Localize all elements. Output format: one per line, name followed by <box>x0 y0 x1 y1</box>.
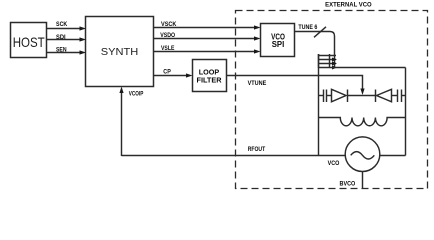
external vco dashed boundary <box>236 2 428 189</box>
svg-text:HOST: HOST <box>13 35 45 50</box>
wire SEN host to synth <box>47 52 82 54</box>
svg-text:VCO: VCO <box>328 161 340 167</box>
svg-text:VTUNE: VTUNE <box>248 81 267 87</box>
svg-text:VSDO: VSDO <box>160 33 175 39</box>
svg-text:RFOUT: RFOUT <box>248 147 266 153</box>
svg-text:VSLE: VSLE <box>161 46 174 52</box>
inductor L1 <box>319 118 406 126</box>
svg-text:VSCK: VSCK <box>161 22 177 28</box>
capacitor C-left <box>323 90 325 103</box>
tank top rail <box>319 67 406 69</box>
wire circle right to tank <box>380 155 406 157</box>
capacitor C-right <box>397 90 399 103</box>
loop filter box <box>193 60 227 92</box>
svg-text:EXTERNAL VCO: EXTERNAL VCO <box>325 2 372 9</box>
varactor diode D-right <box>375 90 377 103</box>
wire center node <box>348 95 376 97</box>
varactor branch: wire <box>319 95 324 97</box>
svg-text:LOOP: LOOP <box>199 69 220 76</box>
bus slash 6 <box>314 27 326 38</box>
wire BVCO stub <box>362 172 364 190</box>
svg-text:CP: CP <box>163 70 171 76</box>
svg-text:SPI: SPI <box>272 40 285 49</box>
svg-text:TUNE 6: TUNE 6 <box>298 25 318 31</box>
wire CP synth to loop filter <box>154 75 189 77</box>
wire SCK host to synth <box>47 28 82 30</box>
vco oscillator circle <box>328 137 380 172</box>
wire <box>392 95 398 97</box>
wire VSDO synth to vco spi <box>154 38 257 40</box>
host box U-HOST <box>11 23 47 58</box>
vco spi box <box>261 24 295 57</box>
svg-text:SEN: SEN <box>56 47 67 53</box>
svg-text:SDI: SDI <box>56 35 66 41</box>
svg-text:BVCO: BVCO <box>340 182 356 188</box>
wire TUNE 6 bus vco spi to cap bank <box>295 32 335 68</box>
switched capacitor bank <box>319 54 338 70</box>
wire <box>327 95 332 97</box>
wire SDI host to synth <box>47 39 82 41</box>
svg-text:SCK: SCK <box>56 22 68 28</box>
tank left vertical <box>318 54 320 156</box>
varactor diode D-left <box>332 89 347 102</box>
synth box U-SYNTH <box>86 17 154 87</box>
svg-text:SYNTH: SYNTH <box>101 46 139 58</box>
svg-text:FILTER: FILTER <box>197 77 222 84</box>
wire VSLE synth to vco spi <box>154 51 257 53</box>
wire RFOUT rail to synth VCOIP <box>122 155 346 157</box>
wire VSCK synth to vco spi <box>154 27 257 29</box>
wire VTUNE loop filter to varactor node <box>227 76 363 91</box>
tank right vertical <box>405 68 407 156</box>
svg-text:VCOIP: VCOIP <box>129 91 144 97</box>
wire <box>402 95 406 97</box>
